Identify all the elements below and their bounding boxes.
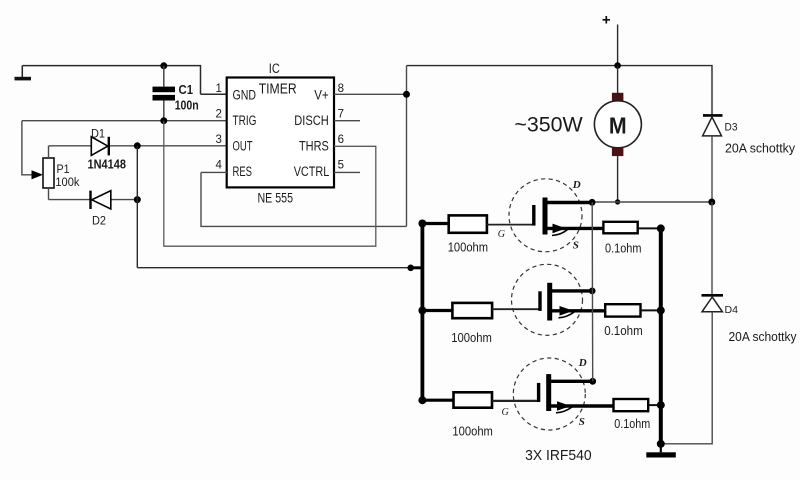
svg-text:1: 1 (216, 83, 222, 95)
junction source row1 (657, 224, 665, 232)
svg-text:THRS: THRS (299, 139, 329, 154)
junction OUT / gate bus (407, 265, 414, 272)
svg-text:3X IRF540: 3X IRF540 (525, 447, 592, 464)
wire OUT to gate bus (137, 267, 410, 269)
junction drain row3 (589, 378, 596, 385)
wire drain link row1 (592, 201, 712, 203)
gate bus (420, 222, 424, 401)
svg-text:GND: GND (233, 88, 257, 103)
wire ground rail (22, 66, 200, 95)
wire D2 row (pot bottom to junction) (49, 199, 138, 201)
resistor 0.1ohm row1 (603, 222, 637, 234)
wire V+ vertical (406, 66, 408, 227)
junction supply / rail (614, 62, 621, 69)
wire rail to motor (617, 66, 619, 93)
svg-text:100ohm: 100ohm (448, 239, 488, 254)
svg-text:D: D (578, 357, 587, 369)
junction motor / drain link (615, 199, 620, 204)
transistor Q2 IRF540 (512, 264, 606, 335)
svg-text:D4: D4 (725, 304, 739, 316)
wiper arrow of P1 (32, 170, 44, 179)
wire gate lead row2 (492, 308, 540, 310)
+ supply symbol (603, 16, 611, 24)
svg-text:D: D (572, 179, 581, 191)
svg-text:0.1ohm: 0.1ohm (605, 240, 642, 255)
wire TRIG down to wiper (22, 121, 34, 175)
svg-text:DISCH: DISCH (294, 113, 329, 128)
wire gate lead row3 (492, 400, 539, 402)
junction D2 / OUT vertical (134, 196, 141, 203)
svg-text:V+: V+ (314, 88, 329, 103)
wire bus to R 100ohm row1 (422, 222, 449, 225)
svg-text:5: 5 (338, 160, 344, 172)
potentiometer P1 (43, 146, 80, 200)
svg-text:100ohm: 100ohm (452, 423, 493, 438)
svg-text:20A schottky: 20A schottky (729, 330, 798, 344)
svg-text:0.1ohm: 0.1ohm (614, 416, 650, 431)
svg-text:D1: D1 (91, 126, 105, 140)
diode D2 (91, 191, 111, 228)
svg-text:0.1ohm: 0.1ohm (604, 323, 643, 338)
resistor 0.1ohm row3 (614, 399, 649, 411)
resistor 0.1ohm row2 (605, 304, 640, 316)
wire D4 to ground bus (661, 312, 712, 444)
svg-text:8: 8 (338, 83, 344, 95)
svg-text:1N4148: 1N4148 (88, 157, 127, 171)
wire pin 5 VCTRL stub (334, 171, 360, 173)
svg-text:D3: D3 (725, 121, 738, 133)
wire TRIG line (pin 2) (22, 120, 227, 122)
junction D3 / drain link / D4 (708, 199, 715, 206)
svg-text:G: G (498, 229, 505, 240)
resistor 100ohm row3 (454, 392, 493, 407)
op-amp-style IC box U1 NE555 (227, 78, 334, 188)
diode D1 (88, 126, 127, 171)
wire + supply to rail (617, 25, 619, 66)
junction source / D4 return (657, 440, 665, 448)
junction gate bus row1 (418, 220, 426, 228)
transistor Q3 IRF540 (513, 357, 613, 430)
svg-text:4: 4 (216, 160, 223, 172)
junction TRIG / C1 / THRS (160, 117, 167, 124)
junction drain row2 (589, 288, 596, 295)
junction ground rail / C1 (160, 62, 167, 69)
wire RES loop (201, 172, 407, 226)
svg-text:RES: RES (233, 164, 253, 179)
wire gate lead row1 (487, 224, 534, 226)
wire drain bus (thin) (591, 202, 594, 381)
junction gate bus row2 (418, 307, 426, 315)
wire bus to R 100ohm row2 (422, 309, 453, 312)
wire R row3 to source bus (648, 404, 661, 406)
junction source row3 (657, 401, 665, 409)
ground (top-left) (15, 66, 32, 81)
junction drain row1 (589, 199, 596, 206)
svg-text:G: G (502, 407, 509, 418)
svg-text:D2: D2 (92, 213, 106, 227)
wire pin 7 DISCH stub (334, 120, 360, 122)
wire V+ rail (407, 66, 713, 115)
resistor 100ohm row1 (449, 215, 487, 232)
wire OUT row (pot top to IC pin 3) (49, 145, 228, 147)
svg-text:20A schottky: 20A schottky (725, 141, 796, 155)
svg-text:~350W: ~350W (514, 114, 582, 137)
wire motor to drain node (617, 156, 619, 202)
motor M (594, 93, 641, 156)
source bus (659, 228, 663, 443)
resistor 100ohm row2 (452, 303, 492, 318)
wire pin1 GND (201, 93, 228, 95)
svg-text:100k: 100k (55, 177, 79, 189)
wire pin 4 RES (201, 171, 227, 173)
wire OUT vertical (136, 146, 138, 268)
junction source row2 (657, 306, 665, 314)
svg-text:P1: P1 (57, 164, 70, 176)
junction gate bus row3 (418, 396, 426, 404)
diode D4 (702, 295, 798, 344)
svg-text:100n: 100n (175, 98, 199, 112)
wire pin 6 THRS loop (164, 121, 376, 247)
wire bus to R 100ohm row3 (422, 399, 454, 402)
svg-text:OUT: OUT (233, 139, 253, 154)
svg-text:TRIG: TRIG (233, 113, 257, 128)
wire R row2 to source bus (641, 309, 661, 311)
svg-text:7: 7 (338, 109, 344, 121)
diode D3 (703, 115, 796, 202)
wire R row1 to source bus (638, 227, 661, 229)
junction OUT node (134, 142, 141, 149)
svg-text:2: 2 (216, 109, 222, 121)
svg-text:TIMER: TIMER (259, 81, 297, 98)
svg-text:NE 555: NE 555 (258, 191, 294, 206)
svg-text:3: 3 (216, 134, 222, 146)
svg-text:C1: C1 (179, 83, 194, 97)
ground (bottom) (646, 444, 676, 458)
svg-text:S: S (573, 239, 579, 251)
svg-text:S: S (579, 416, 585, 428)
junction pin8 / V+ vertical (403, 91, 410, 98)
wire pin 8 V+ (334, 93, 407, 95)
capacitor C1 (153, 66, 199, 121)
svg-text:IC: IC (269, 61, 280, 76)
transistor Q1 IRF540 (509, 179, 604, 252)
svg-text:VCTRL: VCTRL (294, 164, 330, 179)
svg-text:6: 6 (338, 134, 344, 146)
svg-text:M: M (609, 112, 627, 138)
wire D4 column upper (711, 202, 713, 294)
svg-text:100ohm: 100ohm (451, 330, 492, 345)
